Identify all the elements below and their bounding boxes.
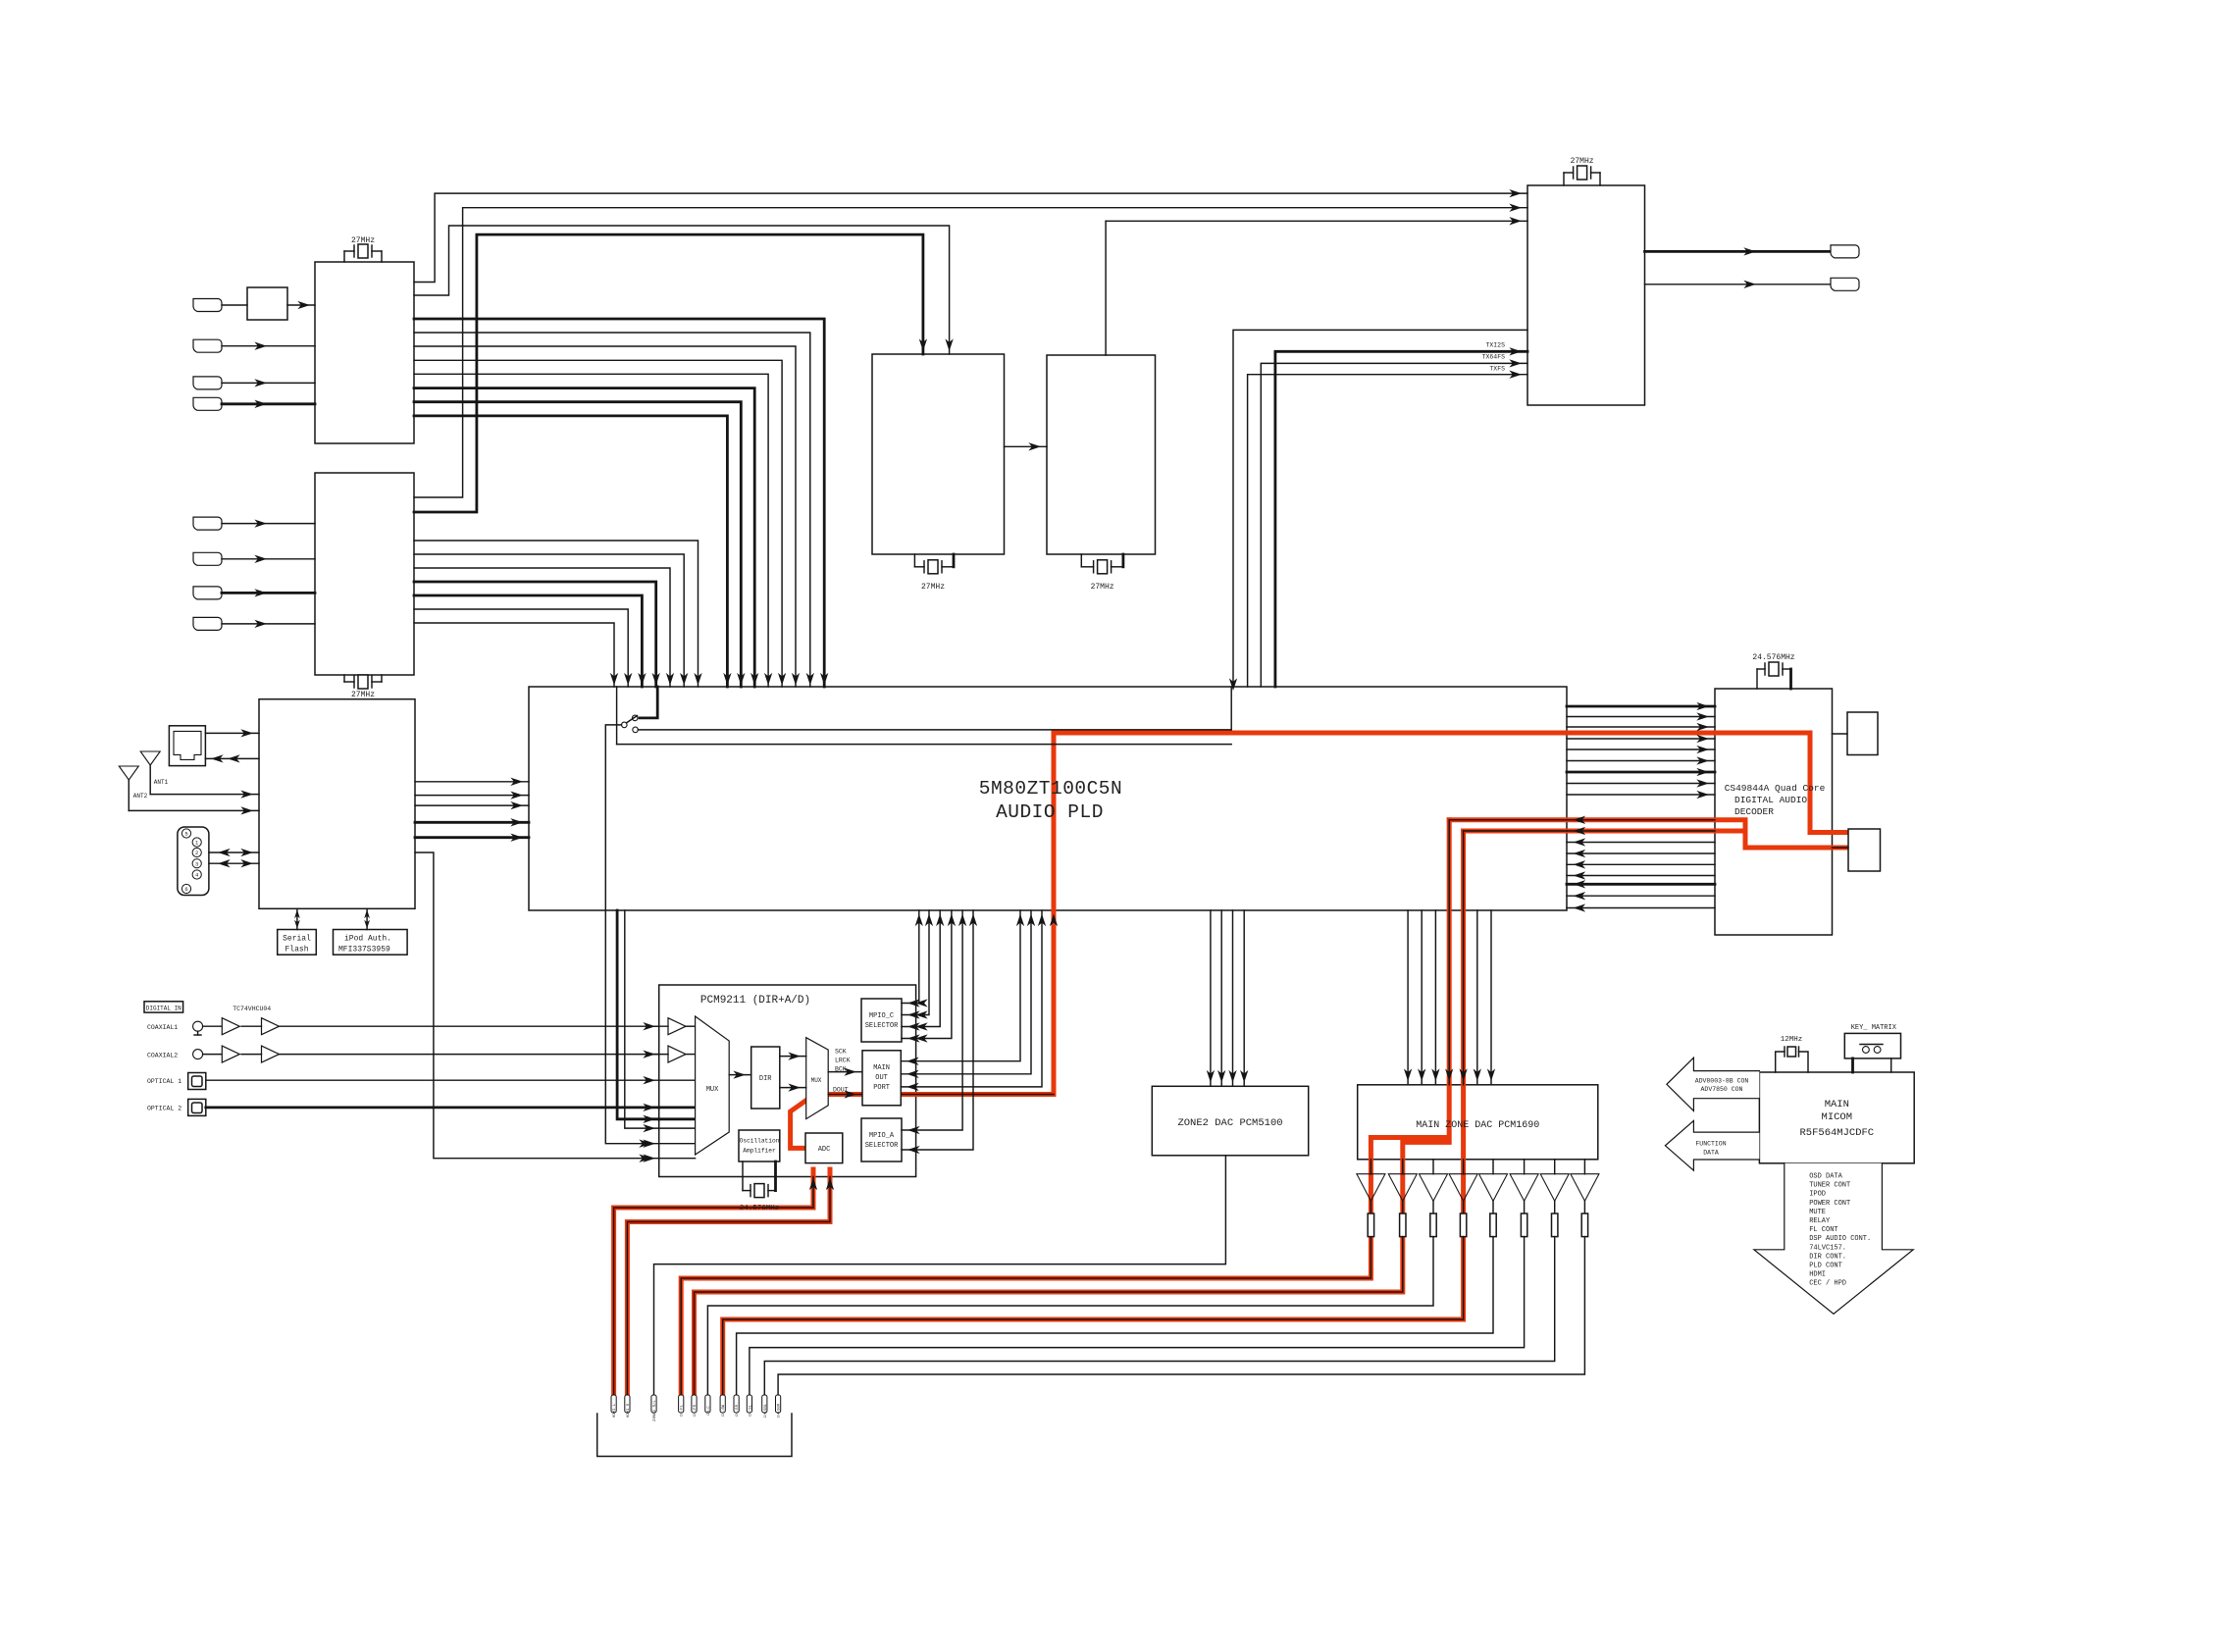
svg-text:ZONE2 R/L: ZONE2 R/L [652,1400,657,1421]
svg-text:OPTICAL 2: OPTICAL 2 [147,1106,181,1112]
svg-text:Amplifier: Amplifier [743,1148,776,1155]
svg-text:KEY_ MATRIX: KEY_ MATRIX [1851,1024,1897,1032]
svg-text:12MHz: 12MHz [1781,1036,1803,1044]
svg-text:COAXIAL2: COAXIAL2 [147,1053,178,1059]
svg-text:CH-SBR: CH-SBR [778,1403,782,1418]
svg-text:5M80ZT100C5N: 5M80ZT100C5N [979,778,1122,800]
svg-text:COAXIAL1: COAXIAL1 [147,1024,178,1031]
svg-text:FUNCTION: FUNCTION [1695,1140,1726,1147]
svg-text:SCK: SCK [835,1049,847,1056]
svg-text:MAIN ZONE DAC PCM1690: MAIN ZONE DAC PCM1690 [1416,1120,1539,1131]
svg-text:CS49844A Quad Core: CS49844A Quad Core [1725,783,1826,794]
svg-text:CH-C: CH-C [707,1406,711,1416]
svg-text:OUT: OUT [875,1074,888,1082]
svg-text:SELECTOR: SELECTOR [865,1142,899,1150]
svg-text:OSD DATA: OSD DATA [1809,1173,1842,1181]
svg-text:CH-SW: CH-SW [722,1404,726,1417]
svg-text:27MHz: 27MHz [1571,157,1594,166]
svg-text:TUNER CONT: TUNER CONT [1809,1182,1850,1190]
svg-text:TXFS: TXFS [1489,366,1505,373]
svg-text:27MHz: 27MHz [351,691,375,699]
svg-text:CH-FR: CH-FR [694,1404,698,1417]
svg-text:24.576MHz: 24.576MHz [1752,653,1794,662]
svg-text:MAIN: MAIN [873,1064,890,1072]
svg-text:CH-SR: CH-SR [736,1404,740,1417]
svg-text:TXI2S: TXI2S [1485,341,1505,348]
svg-text:DECODER: DECODER [1734,806,1774,817]
svg-text:TC74VHCU04: TC74VHCU04 [233,1006,271,1012]
svg-text:27MHz: 27MHz [351,236,375,245]
svg-text:HDMI: HDMI [1809,1271,1826,1279]
svg-text:R5F564MJCDFC: R5F564MJCDFC [1799,1127,1874,1139]
svg-text:ADV8003-8B CON: ADV8003-8B CON [1695,1077,1749,1084]
svg-text:Oscillation: Oscillation [740,1138,780,1145]
svg-text:24.576MHz: 24.576MHz [740,1205,780,1213]
svg-text:OPTICAL 1: OPTICAL 1 [147,1078,181,1085]
svg-text:TX64FS: TX64FS [1482,353,1506,360]
svg-text:HDMI R: HDMI R [627,1403,631,1418]
svg-text:CH-FL: CH-FL [681,1404,685,1417]
svg-text:CH-SBL: CH-SBL [764,1403,768,1418]
svg-text:AUDIO PLD: AUDIO PLD [996,801,1104,823]
svg-text:ADV7850 CON: ADV7850 CON [1701,1086,1743,1093]
svg-text:ANT1: ANT1 [154,779,169,786]
svg-text:3: 3 [195,860,198,867]
svg-text:MFI337S3959: MFI337S3959 [338,946,390,955]
svg-text:DIGITAL IN: DIGITAL IN [146,1005,181,1011]
svg-text:DSP AUDIO CONT.: DSP AUDIO CONT. [1809,1235,1871,1243]
svg-text:MUX: MUX [811,1077,822,1084]
svg-text:MPIO_C: MPIO_C [869,1012,894,1020]
svg-text:iPod Auth.: iPod Auth. [344,935,391,944]
svg-text:IPOD: IPOD [1809,1191,1826,1199]
svg-text:MICOM: MICOM [1822,1111,1853,1123]
svg-text:Flash: Flash [285,946,308,955]
svg-text:RELAY: RELAY [1809,1217,1831,1225]
svg-text:ANT2: ANT2 [133,793,148,800]
svg-text:74LVC157.: 74LVC157. [1809,1244,1846,1252]
svg-text:MUX: MUX [706,1086,719,1094]
svg-text:DIGITAL AUDIO: DIGITAL AUDIO [1734,795,1807,805]
svg-text:ZONE2 DAC PCM5100: ZONE2 DAC PCM5100 [1177,1117,1282,1129]
svg-text:CH-SL: CH-SL [749,1404,752,1417]
svg-text:PCM9211 (DIR+A/D): PCM9211 (DIR+A/D) [700,995,810,1007]
svg-text:5: 5 [184,831,187,838]
svg-text:PORT: PORT [873,1084,890,1092]
svg-text:POWER CONT: POWER CONT [1809,1200,1850,1208]
svg-text:CEC / HPD: CEC / HPD [1809,1280,1846,1288]
svg-text:DATA: DATA [1703,1150,1719,1157]
svg-text:27MHz: 27MHz [1091,583,1114,592]
svg-text:PLD CONT: PLD CONT [1809,1263,1842,1270]
svg-text:ADC: ADC [818,1146,831,1154]
svg-text:HDMI L: HDMI L [613,1403,617,1418]
svg-text:6: 6 [184,886,187,893]
svg-text:LRCK: LRCK [835,1058,851,1064]
svg-text:MUTE: MUTE [1809,1209,1826,1216]
svg-text:2: 2 [195,850,198,856]
svg-text:DIR: DIR [759,1075,772,1083]
svg-text:27MHz: 27MHz [921,583,945,592]
svg-text:FL CONT: FL CONT [1809,1226,1837,1234]
svg-text:Serial: Serial [283,935,311,944]
svg-text:MAIN: MAIN [1825,1099,1849,1110]
svg-text:SELECTOR: SELECTOR [865,1022,899,1030]
svg-text:MPIO_A: MPIO_A [869,1132,895,1140]
svg-text:DIR CONT.: DIR CONT. [1809,1253,1846,1261]
